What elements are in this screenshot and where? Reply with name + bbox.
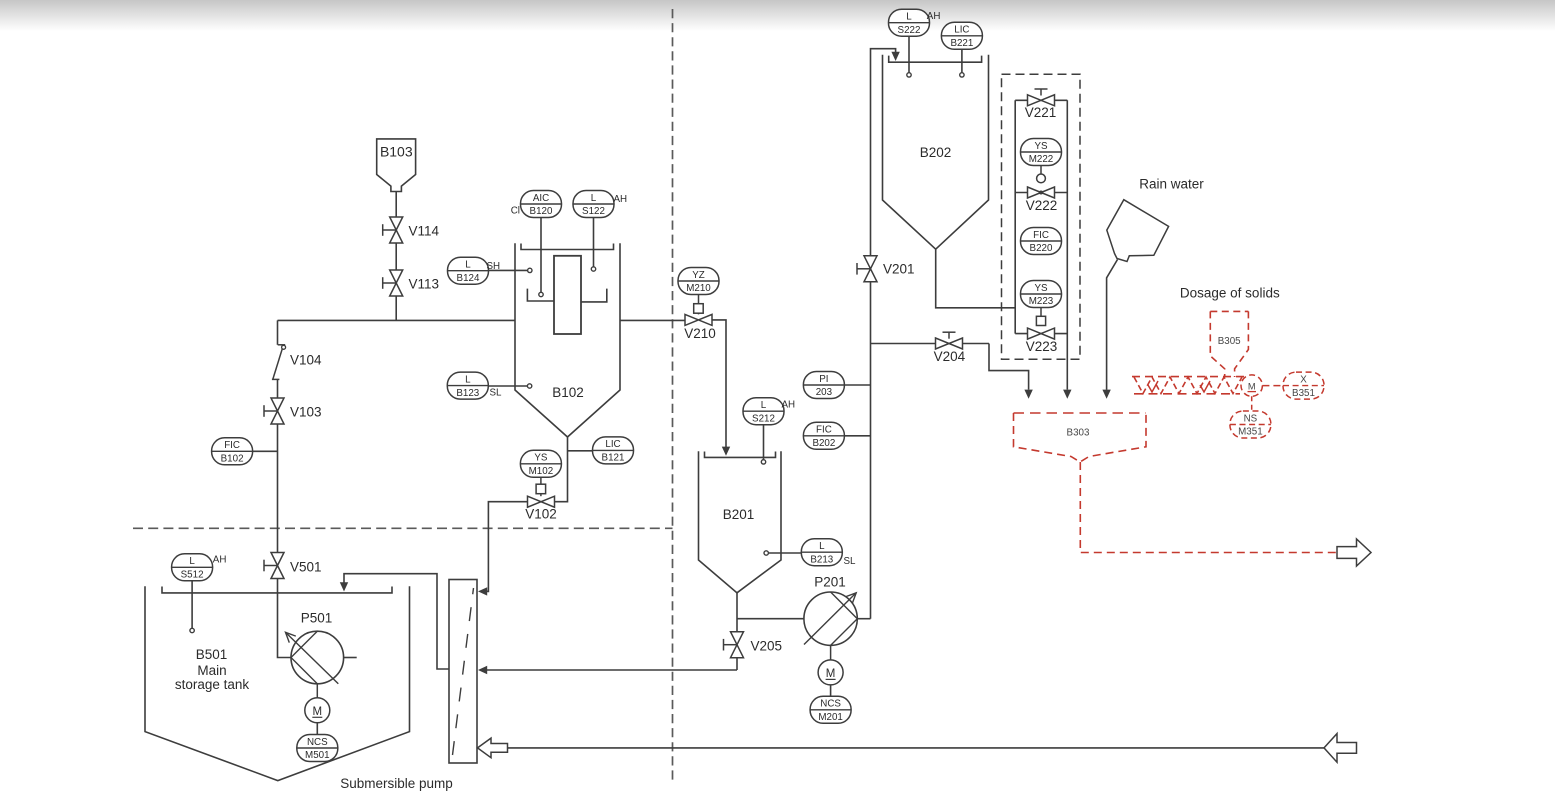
instrument NCS M201 xyxy=(830,685,832,696)
svg-text:L: L xyxy=(465,374,471,385)
manifold left pipe xyxy=(1014,100,1016,333)
hopper B305 (dashed red) xyxy=(1210,311,1248,377)
dip tube AIC B120 xyxy=(540,218,542,293)
valve V201 xyxy=(857,256,877,282)
motor M of P201 xyxy=(818,645,843,685)
svg-text:L: L xyxy=(189,556,195,567)
dip tube B221 xyxy=(961,49,963,72)
svg-text:FIC: FIC xyxy=(816,425,832,436)
pipe V102 to heat exchanger xyxy=(487,502,528,592)
svg-text:AH: AH xyxy=(213,555,227,566)
svg-text:Dosage of solids: Dosage of solids xyxy=(1180,285,1280,300)
manifold cross pipe bottom xyxy=(1015,333,1067,335)
svg-text:S212: S212 xyxy=(752,413,775,424)
svg-text:LIC: LIC xyxy=(605,439,620,450)
actuator V102 xyxy=(536,477,546,496)
svg-text:X: X xyxy=(1300,374,1307,385)
wire B103 to V114 xyxy=(395,192,397,218)
svg-text:M: M xyxy=(313,706,323,718)
wire V103 to V501 xyxy=(277,424,279,553)
svg-text:P201: P201 xyxy=(814,575,846,590)
instrument FIC B220 xyxy=(1021,228,1062,255)
instrument YZ M210 xyxy=(678,268,719,295)
svg-text:B305: B305 xyxy=(1218,336,1241,347)
svg-text:B303: B303 xyxy=(1067,428,1090,439)
svg-text:S512: S512 xyxy=(181,570,204,581)
instrument NS M351 (dashed red) xyxy=(1230,411,1271,438)
tank B202 xyxy=(883,55,989,250)
battery limit dashed line (vertical) xyxy=(672,9,674,783)
hopper B103 xyxy=(377,139,416,192)
svg-text:V223: V223 xyxy=(1026,339,1058,354)
svg-text:M351: M351 xyxy=(1238,427,1263,438)
svg-text:M210: M210 xyxy=(686,283,711,294)
svg-text:SL: SL xyxy=(490,388,503,399)
svg-text:B103: B103 xyxy=(380,144,413,160)
signal M to X B351 (dashed red) xyxy=(1262,385,1283,387)
instrument YS M102 xyxy=(520,450,561,477)
wire V501 into tank to P501 xyxy=(278,579,292,658)
svg-text:NCS: NCS xyxy=(820,699,841,710)
svg-text:B201: B201 xyxy=(723,507,755,522)
svg-text:V222: V222 xyxy=(1026,198,1058,213)
dip tube S512 xyxy=(191,581,193,629)
svg-text:B102: B102 xyxy=(552,385,584,400)
hollow arrow to next page (right) xyxy=(1337,539,1371,566)
svg-text:Cl: Cl xyxy=(511,206,520,217)
dip tube S212 xyxy=(763,425,765,460)
instrument L S512 xyxy=(172,554,213,581)
external feed line (bottom) xyxy=(508,747,1325,749)
instrument AIC B120 xyxy=(521,191,562,218)
svg-text:FIC: FIC xyxy=(1033,230,1049,241)
svg-text:M: M xyxy=(826,668,836,680)
instrument NCS M201 bubble xyxy=(810,696,851,723)
arrow into exchanger (top) xyxy=(478,587,487,595)
instrument YS M223 xyxy=(1021,281,1062,308)
svg-text:AH: AH xyxy=(927,11,941,22)
svg-text:SL: SL xyxy=(844,556,857,567)
svg-text:B121: B121 xyxy=(602,453,625,464)
svg-text:V210: V210 xyxy=(684,326,716,341)
svg-text:V501: V501 xyxy=(290,560,322,575)
hollow arrow into exchanger (bottom) xyxy=(478,738,508,758)
discharge P201 to riser xyxy=(857,618,870,620)
svg-text:storage tank: storage tank xyxy=(175,677,250,692)
instrument YS M222 xyxy=(1021,139,1062,166)
svg-text:YS: YS xyxy=(1034,141,1048,152)
svg-text:B501: B501 xyxy=(196,647,228,662)
stem V221 xyxy=(1035,89,1048,96)
svg-text:B102: B102 xyxy=(221,454,244,465)
pump P501 xyxy=(286,631,357,684)
valve V114 xyxy=(383,217,403,243)
svg-text:B123: B123 xyxy=(456,388,479,399)
rain water drain line xyxy=(1107,260,1118,390)
drain B202 to dosing manifold xyxy=(936,249,1016,308)
valve V222 xyxy=(1028,187,1055,198)
svg-text:M102: M102 xyxy=(529,466,554,477)
pump P201 xyxy=(804,592,857,645)
valve V221 xyxy=(1028,95,1055,106)
pipe header into B102 xyxy=(278,319,516,321)
dip tube S222 xyxy=(908,36,910,72)
manifold cross pipe middle xyxy=(1015,192,1067,194)
svg-text:V114: V114 xyxy=(409,223,440,238)
return line exchanger to B501 xyxy=(344,574,449,669)
drain B201 down to V205 xyxy=(736,593,738,632)
svg-text:PI: PI xyxy=(819,374,828,385)
valve V103 xyxy=(264,398,284,424)
tank B501 xyxy=(145,586,410,780)
drain line V205 to exchanger xyxy=(487,669,737,671)
rain water collector xyxy=(1107,200,1169,262)
svg-text:B213: B213 xyxy=(810,554,833,565)
arrow into B303 (from V204) xyxy=(1024,390,1032,399)
arrow into exchanger (middle) xyxy=(478,666,487,674)
svg-text:L: L xyxy=(906,12,912,23)
svg-text:V104: V104 xyxy=(290,353,322,368)
arrow into B303 (rain water) xyxy=(1102,390,1110,399)
svg-text:YS: YS xyxy=(534,453,548,464)
valve V204 xyxy=(936,338,963,349)
svg-text:B351: B351 xyxy=(1292,388,1315,399)
svg-text:S222: S222 xyxy=(898,25,921,36)
svg-text:V103: V103 xyxy=(290,405,322,420)
valve V102 xyxy=(528,496,555,507)
svg-text:Submersible pump: Submersible pump xyxy=(340,776,453,791)
svg-text:B221: B221 xyxy=(950,38,973,49)
valve V113 xyxy=(383,270,403,296)
svg-text:B202: B202 xyxy=(812,438,835,449)
svg-text:AH: AH xyxy=(782,400,796,411)
svg-text:Rain water: Rain water xyxy=(1139,177,1204,192)
pipe V204 to B303 xyxy=(989,344,1029,390)
svg-text:YS: YS xyxy=(1034,283,1048,294)
svg-text:V205: V205 xyxy=(751,638,783,653)
signal FIC B202 xyxy=(844,435,870,437)
instrument X B351 (dashed red) xyxy=(1283,372,1324,399)
agitator internals in B102 xyxy=(527,256,606,334)
svg-text:M501: M501 xyxy=(305,750,330,761)
pipe V210 to B201 xyxy=(712,320,726,447)
heat exchanger (submersible pump discharge unit) xyxy=(449,580,477,764)
manifold cross pipe top xyxy=(1015,99,1067,101)
svg-text:M223: M223 xyxy=(1029,296,1054,307)
signal FIC B102 to pipe xyxy=(253,450,278,452)
svg-text:V102: V102 xyxy=(525,507,557,522)
valve V223 xyxy=(1028,328,1055,339)
tank B201 xyxy=(699,451,782,593)
wire V113 to header xyxy=(395,296,397,320)
tank B102 xyxy=(515,243,620,437)
svg-text:LIC: LIC xyxy=(954,25,969,36)
svg-text:AIC: AIC xyxy=(533,193,549,204)
instrument L B123 xyxy=(447,372,488,399)
valve V501 xyxy=(264,553,284,579)
manifold right pipe xyxy=(1066,100,1068,389)
svg-text:V113: V113 xyxy=(409,277,440,292)
dip tube S122 xyxy=(593,218,595,267)
instrument L B213 xyxy=(801,539,842,566)
instrument FIC B202 xyxy=(803,422,844,449)
instrument PI 203 xyxy=(803,372,844,399)
svg-text:M201: M201 xyxy=(818,712,843,723)
actuator V222 xyxy=(1037,166,1046,183)
svg-text:AH: AH xyxy=(614,194,628,205)
svg-text:YZ: YZ xyxy=(692,270,705,281)
hollow arrow from source (bottom right) xyxy=(1324,734,1357,763)
svg-text:S122: S122 xyxy=(582,206,605,217)
instrument L B124 xyxy=(448,257,489,284)
actuator V223 xyxy=(1036,308,1045,326)
instrument L S122 xyxy=(573,191,614,218)
instrument FIC B102 xyxy=(212,438,253,465)
svg-text:L: L xyxy=(819,541,825,552)
probe line B124 xyxy=(489,269,528,271)
valve V205 xyxy=(724,632,744,658)
probe line B123 xyxy=(488,385,527,387)
valve V210 xyxy=(685,314,712,325)
arrow into B201 xyxy=(722,447,730,456)
arrow into B501 xyxy=(340,582,348,591)
actuator V210 xyxy=(694,295,704,315)
instrument L S212 xyxy=(743,398,784,425)
instrument LIC B221 xyxy=(941,22,982,49)
svg-text:B124: B124 xyxy=(457,273,480,284)
svg-text:B220: B220 xyxy=(1030,243,1053,254)
signal PI 203 xyxy=(844,384,870,386)
svg-text:M222: M222 xyxy=(1029,154,1054,165)
instrument L S222 xyxy=(889,9,930,36)
svg-text:Main: Main xyxy=(197,663,226,678)
svg-text:L: L xyxy=(465,260,471,271)
stem V204 xyxy=(943,332,956,339)
wire V205 to drain line xyxy=(736,658,738,670)
signal LIC B121 xyxy=(568,450,593,452)
svg-text:B120: B120 xyxy=(530,206,553,217)
dashed enclosure dosing unit xyxy=(1002,74,1081,359)
svg-text:V221: V221 xyxy=(1025,105,1057,120)
svg-text:V201: V201 xyxy=(883,262,915,277)
discharge line B303 (dashed red) xyxy=(1080,462,1336,553)
valve V104 xyxy=(272,345,286,380)
wire V114 to V113 xyxy=(395,243,397,270)
suction pipe to P201 xyxy=(737,618,804,620)
instrument NCS M501 bubble xyxy=(297,735,338,762)
tank B303 (dashed) xyxy=(1014,412,1147,414)
screw conveyor (dashed red) xyxy=(1132,377,1246,394)
riser pipe P201 up to B202 xyxy=(871,49,896,619)
branch riser to V204 xyxy=(871,343,990,345)
instrument NCS M501 xyxy=(316,723,318,735)
wire V104 to V103 xyxy=(277,379,279,398)
svg-text:L: L xyxy=(591,193,597,204)
pipe B102 outlet to V210 xyxy=(620,319,685,321)
arrow into B202 xyxy=(891,52,899,61)
battery limit dashed line (horizontal) xyxy=(133,527,673,529)
motor M of dosing screw (dashed red) xyxy=(1241,375,1262,411)
svg-text:V204: V204 xyxy=(934,349,966,364)
svg-text:NS: NS xyxy=(1244,413,1258,424)
svg-text:L: L xyxy=(761,400,767,411)
probe line B213 xyxy=(768,552,801,554)
wire header down to V104 xyxy=(277,320,279,344)
svg-text:B202: B202 xyxy=(920,145,952,160)
svg-text:P501: P501 xyxy=(301,611,333,626)
drain pipe B102 to V102 xyxy=(555,437,568,502)
svg-text:FIC: FIC xyxy=(224,440,240,451)
svg-text:203: 203 xyxy=(816,387,833,398)
instrument LIC B121 xyxy=(593,437,634,464)
motor M of P501 xyxy=(305,684,330,723)
arrow into B303 (from manifold) xyxy=(1063,390,1071,399)
svg-text:NCS: NCS xyxy=(307,737,328,748)
svg-text:M: M xyxy=(1248,381,1256,391)
